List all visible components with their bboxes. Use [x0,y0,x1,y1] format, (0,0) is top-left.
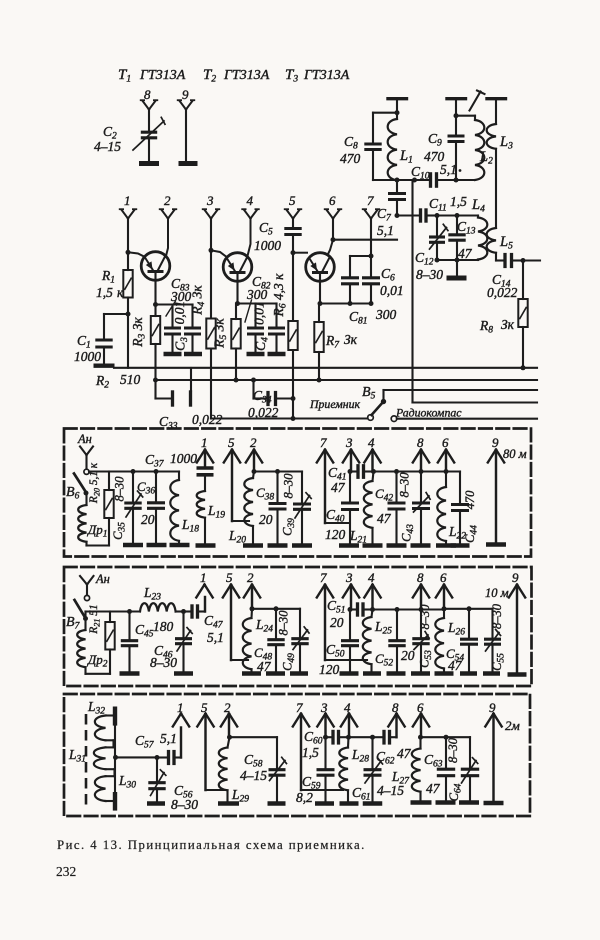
wire term2 stem [166,219,168,257]
svg-text:8–30: 8–30 [416,267,443,282]
capacitor C61 var [371,737,373,767]
ground C49 [290,671,308,676]
node b1-4 [371,469,376,474]
svg-text:20: 20 [259,512,273,527]
svg-text:5: 5 [289,193,296,208]
svg-text:С60: С60 [304,729,323,747]
svg-text:Зк: Зк [344,332,358,347]
svg-text:L28: L28 [351,747,369,765]
terminal 8 [143,101,150,110]
ground under 8 [139,161,159,166]
terminal 6 [327,210,334,219]
node T3 base [291,250,296,255]
svg-text:ГТ313А: ГТ313А [223,68,270,83]
svg-text:510: 510 [120,372,141,387]
label C53 rotated [418,650,435,668]
ground bar C83 [164,352,182,357]
node C38 [275,469,280,474]
svg-text:2: 2 [247,570,254,585]
capacitor C38 [276,472,278,502]
node b1-2 [252,469,257,474]
ground b3-9 [484,801,504,806]
node under C7 [395,213,400,218]
svg-text:80 м: 80 м [503,447,527,461]
svg-text:8–30: 8–30 [446,737,460,763]
svg-text:R4 Зк: R4 Зк [190,285,208,316]
svg-text:В6: В6 [66,485,80,502]
switch B5 [382,390,384,400]
svg-text:L29: L29 [231,787,249,805]
svg-text:Ан: Ан [77,432,92,446]
capacitor C7 [396,180,398,192]
label C55 rotated [490,653,507,671]
wire bias T1 [156,303,193,305]
node C46 [181,609,186,614]
svg-text:R1: R1 [101,268,115,286]
svg-text:8–30: 8–30 [277,610,291,636]
ground bar C4a [247,352,265,357]
box1 rail left [254,470,302,472]
capacitor C41 [350,470,356,472]
label C35 rotated [111,522,128,540]
svg-text:9: 9 [182,87,189,102]
svg-text:7: 7 [320,435,327,450]
svg-text:Т2: Т2 [203,67,216,85]
svg-text:С81: С81 [349,309,368,327]
wire term6 to T3 [328,240,334,255]
label C49 rotated [281,653,298,671]
band box 10m [64,567,532,686]
label C44 rotated [463,525,480,543]
wire R6 dropper [292,350,294,419]
ground C58 [268,801,286,806]
svg-text:6: 6 [329,193,336,208]
label 8-30 C43 rotated [398,472,412,498]
svg-text:С1: С1 [77,333,91,351]
svg-text:232: 232 [56,864,76,879]
svg-text:5: 5 [226,570,233,585]
node C34 right [291,396,296,401]
capacitor C10 [429,172,432,188]
wire C81 top rail [350,255,371,257]
inductor L29 [228,737,230,747]
rail A [114,367,537,369]
svg-text:С37: С37 [145,452,165,470]
inductor L21 [373,472,374,482]
svg-text:3: 3 [345,435,353,450]
svg-text:8,2: 8,2 [296,790,313,805]
svg-text:L5: L5 [499,234,513,252]
node L1 bottom [395,178,400,183]
svg-text:8: 8 [417,435,424,450]
capacitor C12 [436,216,438,236]
capacitor C6 [370,256,372,276]
svg-text:1000: 1000 [170,451,197,466]
capacitor C63 [445,737,447,767]
inductor L18 [178,472,180,481]
box1 top rail [109,470,179,472]
capacitor C45 [128,612,130,639]
svg-text:5,1: 5,1 [440,162,457,177]
ground C40 [339,543,359,548]
label 470 rotated [463,490,477,510]
wire collector rail [333,239,397,241]
wire to C1 [104,313,128,315]
svg-text:Др2: Др2 [86,652,108,670]
svg-text:8–30: 8–30 [282,473,296,499]
svg-text:5,1: 5,1 [160,731,177,746]
wire R4 dropper [210,349,212,419]
chassis bar 1 [388,97,407,100]
capacitor C36 [155,472,157,501]
svg-text:470: 470 [424,149,445,164]
label R6 rotated [271,273,289,318]
svg-text:С12: С12 [415,250,434,268]
ground L25 [363,671,381,676]
ground L21 [363,543,383,548]
node b2-2 [250,606,255,611]
inductor L30 [106,775,115,777]
wire base T3 [293,252,307,254]
wire term3 stem [210,219,212,251]
wire bar1 to C8 [373,112,397,114]
inductor L31 [106,746,114,748]
inductor L26 [443,609,445,618]
svg-text:1,5: 1,5 [96,285,113,300]
svg-text:47: 47 [448,658,463,673]
node b2-3 [348,607,353,612]
svg-text:R7: R7 [325,333,340,351]
svg-text:С38: С38 [256,485,274,503]
box1 rail right [374,470,447,472]
svg-text:ГТ313А: ГТ313А [303,68,350,83]
capacitor C43 var [420,472,422,502]
svg-text:0,01: 0,01 [252,301,267,325]
node T2 base [209,248,214,253]
capacitor C50 [349,610,351,639]
svg-text:1: 1 [201,435,208,450]
svg-text:Радиокомпас: Радиокомпас [395,406,462,420]
svg-text:L32: L32 [87,699,105,717]
svg-text:ГТ313А: ГТ313А [139,68,186,83]
svg-text:4–15: 4–15 [94,139,121,154]
node b1-6 [444,469,449,474]
wire C7 to C11 [397,214,419,216]
C1 bottom bar [94,364,115,368]
inductor L22 [445,472,447,488]
svg-text:L1: L1 [399,148,413,166]
ground C46 [174,671,193,676]
svg-text:L2: L2 [479,149,493,167]
svg-text:20: 20 [401,648,415,663]
capacitor C60 [326,736,332,738]
node C54 [467,606,472,611]
ground bar mid [447,276,467,281]
svg-text:С61: С61 [352,785,371,803]
svg-text:R6 4,3 к: R6 4,3 к [271,273,289,318]
svg-text:к: к [117,285,124,300]
rail D [384,389,538,391]
resistor R8 [522,261,524,300]
node b3-4 [346,735,351,740]
inductor L32 [106,714,115,716]
label C3 rotated [173,337,191,351]
resistor R5 [235,304,237,320]
wire to C13 node [437,214,457,216]
box3 rail 3 [421,736,471,738]
node R3 rail [153,378,158,383]
node transformer tap [113,755,118,760]
rail corner vertical [413,401,538,403]
svg-text:4: 4 [247,193,254,208]
node C56 top [155,755,160,760]
svg-text:2: 2 [250,435,257,450]
inductor L27 [419,737,421,748]
svg-text:6: 6 [440,570,447,585]
capacitor C11 [419,208,422,222]
box2 rail mid [252,608,300,610]
terminal 7 [365,210,372,219]
wire bias T3 [320,302,371,304]
label 8-30 C39 rotated [282,473,296,499]
node C6 bottom [369,301,374,306]
svg-text:1: 1 [124,193,131,208]
svg-text:47: 47 [426,781,441,796]
svg-text:С43: С43 [400,524,417,542]
svg-text:3: 3 [206,193,214,208]
svg-text:300: 300 [246,287,268,302]
svg-text:1,5: 1,5 [302,745,319,760]
ground C39 [292,543,312,548]
capacitor C62 [373,736,383,738]
terminal 4 [244,210,251,219]
svg-text:2м: 2м [505,718,520,733]
resistor R3 [154,305,156,317]
ground C42 [387,543,407,548]
wire R1 dropper [127,314,129,368]
svg-text:С11: С11 [429,196,447,214]
node C35 [131,469,136,474]
wire bias T2 [238,302,277,304]
svg-text:8–30: 8–30 [171,797,198,812]
svg-text:С52: С52 [375,651,393,669]
ground C48 [266,671,285,676]
resistor R6 [292,253,294,321]
wire L4 bottom [437,259,478,261]
ground L28 [340,801,359,806]
node T2 bottom [235,301,240,306]
box2 rail right [373,608,445,610]
svg-text:6: 6 [442,435,449,450]
band box 2m [64,694,530,816]
svg-text:С58: С58 [244,752,263,770]
ground C61 [363,801,383,806]
svg-text:20: 20 [330,615,344,630]
svg-text:С45: С45 [135,622,154,640]
capacitor C42 [395,472,397,501]
ground C36 [147,543,167,548]
svg-text:8: 8 [144,87,151,102]
svg-text:470: 470 [340,151,361,166]
svg-text:L24: L24 [255,617,273,635]
svg-text:Приемник: Приемник [309,397,361,411]
svg-text:3: 3 [345,570,353,585]
ground L20 [243,543,263,548]
ground C44 [451,543,470,548]
resistor R21 [86,610,111,612]
box3 rail 2 [349,736,373,738]
svg-text:С47: С47 [204,613,224,631]
svg-text:470: 470 [463,490,477,510]
svg-text:1: 1 [200,570,207,585]
svg-text:С13: С13 [457,219,476,237]
svg-text:R21 51: R21 51 [88,604,102,634]
svg-text:R2: R2 [95,373,109,391]
capacitor C57 [157,756,167,758]
svg-text:47: 47 [397,746,412,761]
terminal 2 [162,210,169,219]
svg-text:120: 120 [325,527,346,542]
node R7 rail [317,378,322,383]
svg-text:0,01: 0,01 [380,283,404,298]
svg-text:L26: L26 [447,620,465,638]
capacitor C34 [252,380,254,399]
node C13 top [455,213,460,218]
capacitor C59 [324,737,326,767]
ground C52 [387,671,406,676]
switch B7 [84,595,89,600]
svg-text:5: 5 [228,435,235,450]
svg-text:С57: С57 [135,733,155,751]
wire to L2 top [456,115,475,117]
label C4 rotated [253,337,271,351]
svg-text:47: 47 [257,659,272,674]
ground b1-9 [486,542,506,547]
svg-text:В5: В5 [362,385,376,402]
svg-text:С64: С64 [447,783,464,801]
svg-text:1,5: 1,5 [450,194,467,209]
capacitor C58 var [276,737,278,767]
label R20 rotated [88,462,102,504]
capacitor C5 [292,219,294,227]
capacitor C81 [349,256,351,276]
svg-text:8–30: 8–30 [398,472,412,498]
svg-text:С36: С36 [137,479,155,497]
svg-text:1000: 1000 [254,238,281,253]
label 8-30 C35 rotated [113,476,127,502]
label C43 rotated [400,524,417,542]
node b2-6 [442,606,447,611]
rail B [156,379,538,381]
rail E right [397,418,537,420]
C83 leader line [166,301,176,316]
svg-text:47: 47 [331,480,346,495]
node C43 [419,469,424,474]
svg-text:С39: С39 [281,518,298,536]
capacitor C3 [191,305,193,327]
label 8-30 C49 rotated [277,610,291,636]
svg-text:R3 Зк: R3 Зк [130,317,148,348]
ground C59 [315,801,334,806]
node b2-4 [370,607,375,612]
node b3-2 [227,735,232,740]
label C39 rotated [281,518,298,536]
capacitor C4 [275,304,277,327]
ground L19 [196,543,216,548]
svg-text:47: 47 [377,511,392,526]
node C12 top [435,213,440,218]
node T3 bottom [318,301,323,306]
resistor R20 [89,470,109,472]
capacitor C53 var [420,610,422,637]
node b3-6 [418,735,423,740]
svg-text:4: 4 [368,435,375,450]
capacitor C39 var [301,472,303,503]
wire base T2 [211,250,226,256]
node C13 bottom [455,258,460,263]
L30 terminal bar [113,792,117,811]
svg-text:4–15: 4–15 [240,768,267,783]
capacitor C64 var [469,737,471,767]
svg-text:С3: С3 [173,337,191,351]
svg-text:С34: С34 [253,388,272,406]
transformer link [114,726,116,792]
node term6 [331,237,336,242]
label R4 rotated [190,285,208,316]
resistor R7 [318,304,320,323]
svg-text:L30: L30 [118,773,136,791]
svg-text:0,022: 0,022 [487,285,518,300]
ground L18 [170,543,190,548]
svg-text:Т1: Т1 [118,67,131,85]
svg-text:Т3: Т3 [285,67,298,85]
svg-text:5,1: 5,1 [207,630,224,645]
svg-text:8–30: 8–30 [113,476,127,502]
ground C38 [268,543,288,548]
node C63 [444,735,449,740]
node C45 [127,609,132,614]
inductor L5 [487,228,496,253]
inductor L1 [396,113,398,119]
node C61 [370,735,375,740]
svg-text:L23: L23 [143,585,161,603]
capacitor C51 [350,608,356,610]
ground L22 [436,543,456,548]
capacitor C35 var [132,472,134,502]
capacitor C48 [275,609,277,638]
svg-text:7: 7 [367,193,374,208]
node C34 left [251,378,256,383]
ground C56 [147,801,165,806]
capacitor C33 [154,380,156,399]
capacitor C14 [496,259,504,261]
ground L27 [411,800,432,805]
wire to L4 [457,214,478,216]
inductor L19 [197,491,205,518]
node C52 [395,607,400,612]
node L2 bottom [454,178,459,183]
inductor L4 [477,216,479,218]
label R5 rotated [212,318,230,349]
long vertical wire [411,180,413,403]
capacitor C8 [364,142,381,145]
capacitor C46 var [182,612,184,637]
ground C43 [411,543,431,548]
terminal 3 [205,210,212,219]
svg-text:С6: С6 [381,266,395,284]
ground bar C3 [184,352,202,357]
rail E corner [210,417,212,419]
